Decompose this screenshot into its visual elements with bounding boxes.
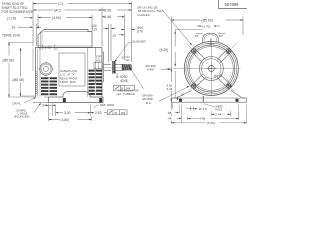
ext line box left	[37, 15, 39, 29]
ribs X pattern	[220, 74, 228, 82]
svg-text:(Ø5.69): (Ø5.69)	[202, 19, 213, 23]
C-face boss	[103, 52, 105, 82]
svg-text:4 HOLES: 4 HOLES	[137, 13, 150, 17]
svg-text:4.88: 4.88	[199, 117, 205, 121]
box bottom line	[38, 45, 92, 47]
svg-text:(1.19): (1.19)	[7, 16, 16, 20]
svg-text:LOC. AT “X”: LOC. AT “X”	[60, 73, 75, 77]
dim (AC) body length	[33, 9, 53, 11]
shaft thread	[122, 64, 132, 70]
svg-text:557896: 557896	[225, 2, 240, 7]
dim (R.17)	[187, 108, 198, 110]
svg-text:.10: .10	[180, 92, 184, 96]
box left face line	[40, 32, 42, 48]
svg-text:2.56: 2.56	[105, 8, 112, 12]
dim (4.50) conduit box	[38, 17, 51, 19]
rabbet circles	[188, 45, 235, 92]
ext line motor left edge	[32, 2, 34, 47]
dim dia 5.48 vertical	[20, 48, 22, 76]
svg-text:SLINGER: SLINGER	[133, 39, 147, 43]
svg-text:(4.50): (4.50)	[52, 16, 61, 20]
ext line left A	[170, 17, 172, 83]
ext line 3.00 left	[55, 105, 57, 117]
svg-text:4.497: 4.497	[147, 68, 155, 72]
title block corner box 557896	[219, 0, 248, 9]
terminal end bell hatch	[36, 71, 38, 73]
svg-text:EX. THREAD: EX. THREAD	[118, 92, 135, 96]
dim 4.88	[188, 118, 199, 120]
svg-text:(3.80): (3.80)	[61, 118, 70, 122]
dim 2.44	[211, 113, 214, 115]
slinger label	[129, 42, 133, 44]
ext line .19	[35, 24, 37, 46]
dim .88 and .44	[171, 103, 173, 109]
dim 1.88	[102, 16, 104, 18]
svg-text:.310: .310	[125, 58, 131, 62]
dim 3.52/3.44	[174, 71, 176, 98]
svg-text:(R.17): (R.17)	[199, 107, 207, 111]
dim 2.53	[91, 112, 95, 114]
feature control frame face	[108, 110, 128, 115]
svg-text:.88: .88	[167, 111, 172, 115]
dim (3.80)	[49, 119, 60, 121]
svg-text:READ FROM: READ FROM	[60, 76, 78, 80]
ground line left	[33, 102, 49, 104]
hole diagonal centrelines	[186, 43, 191, 48]
motor body outline	[36, 47, 103, 49]
dome left wing	[196, 32, 203, 34]
svg-text:.670: .670	[137, 30, 144, 34]
svg-text:(1.62): (1.62)	[44, 45, 52, 49]
svg-text:(Ø5.66): (Ø5.66)	[3, 58, 14, 62]
thru bolt heads	[96, 56, 102, 61]
leader to bolt hole	[162, 10, 191, 45]
svg-text:45°: 45°	[219, 34, 223, 38]
svg-text:(Ø5.48): (Ø5.48)	[13, 78, 24, 82]
weep hole mark	[202, 96, 204, 102]
dim line 4.29	[174, 30, 176, 47]
flange outer circle	[184, 42, 238, 96]
tick	[181, 105, 183, 123]
svg-text:(4.29): (4.29)	[160, 48, 169, 52]
shaft circle	[208, 66, 214, 72]
dome right wing	[218, 32, 225, 34]
bolt holes 4x	[192, 49, 196, 53]
ext line thread start	[124, 15, 126, 61]
svg-text:DR.PL.: DR.PL.	[13, 101, 23, 105]
dim (6.50)	[171, 122, 206, 124]
ext line body line	[52, 104, 54, 117]
svg-text:.19: .19	[11, 26, 16, 30]
shaft centreline	[103, 66, 133, 68]
svg-text:NAMEPLATE: NAMEPLATE	[60, 69, 77, 73]
ext line C-face	[101, 8, 103, 47]
hub circles	[199, 57, 223, 81]
svg-text:.004: .004	[120, 111, 126, 115]
conduit box (side view)	[38, 30, 92, 48]
svg-text:2.53: 2.53	[95, 111, 102, 115]
svg-text:.01: .01	[114, 111, 118, 115]
svg-text:(6.50): (6.50)	[207, 121, 215, 125]
svg-text:TERM. END: TERM. END	[2, 34, 21, 38]
svg-text:2.44: 2.44	[215, 112, 221, 116]
svg-text:.115: .115	[91, 28, 97, 32]
centrelines	[174, 68, 185, 70]
svg-text:(C): (C)	[58, 2, 63, 6]
cradle base right view	[171, 91, 246, 103]
svg-text:(1.70): (1.70)	[202, 25, 210, 29]
bolt circle dashed arcs	[189, 47, 200, 58]
ext line slinger left	[108, 24, 110, 62]
bell seam	[39, 48, 41, 97]
dim (C) overall length	[33, 3, 57, 5]
vent grille left group	[41, 77, 49, 79]
ext line shaft end	[131, 2, 133, 63]
svg-text:45°: 45°	[195, 34, 199, 38]
tick	[178, 105, 180, 114]
svg-text:3.44: 3.44	[167, 87, 173, 91]
dim (1.70)	[197, 25, 200, 27]
feature control frame shaft	[114, 85, 135, 90]
svg-text:.6245: .6245	[120, 79, 128, 83]
svg-text:(AC): (AC)	[54, 8, 61, 12]
shaft	[104, 63, 112, 65]
svg-text:REF. DWG.: REF. DWG.	[100, 103, 115, 107]
svg-text:.44: .44	[167, 117, 172, 121]
ext line right A	[242, 17, 244, 36]
vent grille right group	[89, 70, 95, 72]
dim .690/.670 thread length	[121, 29, 123, 31]
grease cap circle	[40, 63, 52, 75]
svg-text:B.C.: B.C.	[146, 101, 152, 105]
svg-text:(PLUGGED): (PLUGGED)	[14, 115, 30, 119]
svg-text:HOLE: HOLE	[215, 108, 222, 112]
svg-text:3.00: 3.00	[64, 111, 71, 115]
svg-text:R3.25: R3.25	[214, 74, 222, 78]
ext line slinger right	[110, 24, 112, 61]
svg-text:FOR SCREWDRIVER: FOR SCREWDRIVER	[2, 10, 34, 14]
ext line foot left	[48, 104, 50, 122]
ext line 3.00 right	[90, 105, 92, 117]
svg-text:TERM. END: TERM. END	[60, 80, 76, 84]
dome centre tick	[209, 38, 211, 46]
ext line box right	[91, 15, 93, 30]
svg-text:.34: .34	[42, 104, 47, 108]
nameplate outline	[59, 53, 85, 86]
dim 2.56 shaft extension	[102, 9, 104, 11]
dim 3.00	[56, 112, 64, 114]
svg-text:1.88: 1.88	[105, 15, 112, 19]
dim dia 5.66 vertical	[8, 43, 10, 56]
foot slots	[63, 98, 66, 103]
conduit box dome end view	[203, 33, 219, 42]
ext line 3.80 right	[91, 117, 93, 122]
svg-text:.18: .18	[112, 33, 117, 37]
bracket seam	[87, 48, 89, 98]
base and feet	[49, 92, 103, 103]
